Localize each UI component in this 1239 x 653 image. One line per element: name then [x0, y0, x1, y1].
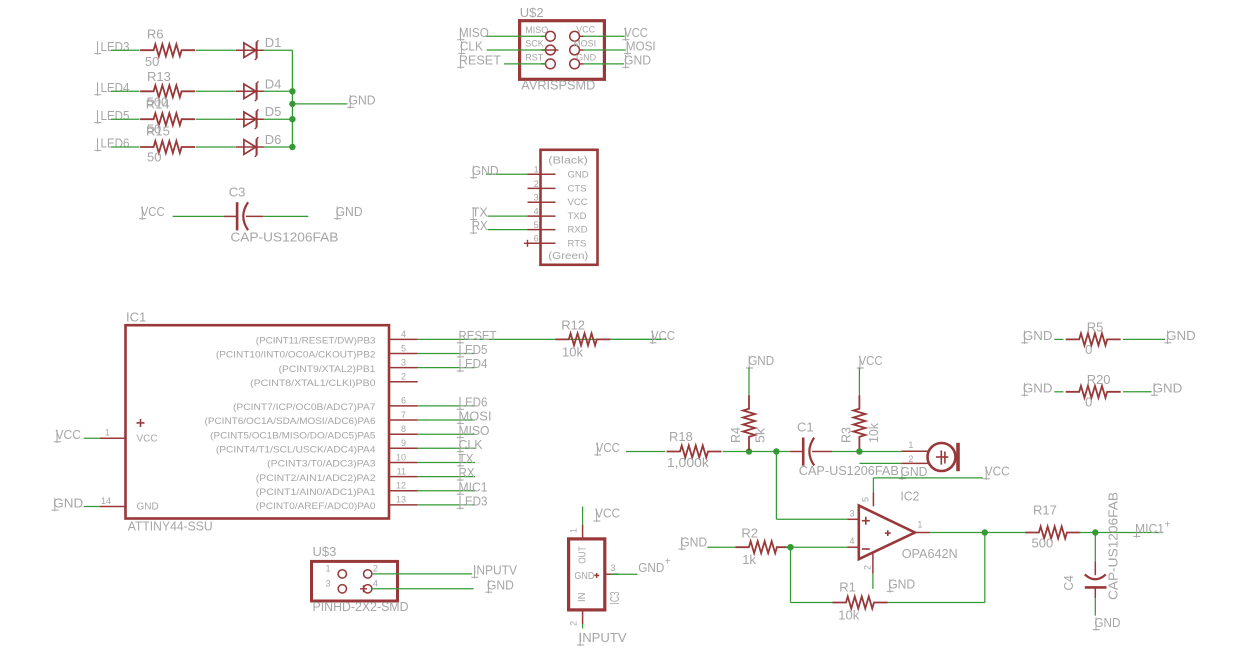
- svg-text:3: 3: [849, 509, 854, 519]
- resistor R14 body: [140, 113, 195, 125]
- svg-text:MOSI: MOSI: [573, 38, 596, 48]
- svg-text:(PCINT8/XTAL1/CLKI)PB0: (PCINT8/XTAL1/CLKI)PB0: [250, 378, 375, 389]
- IC1 pin number 9: [401, 438, 406, 448]
- svg-text:GND: GND: [1094, 615, 1120, 630]
- svg-text:VCC: VCC: [596, 440, 620, 455]
- svg-text:OUT: OUT: [578, 546, 589, 564]
- svg-text:6: 6: [401, 396, 406, 406]
- IC1 pin label (PCINT8/XTAL1/CLKI)PB0: [250, 378, 375, 389]
- svg-text:LED6: LED6: [459, 395, 488, 410]
- svg-text:R4: R4: [728, 427, 743, 443]
- op-amp center + mark: [885, 530, 891, 536]
- capacitor C1 value CAP-US1206FAB: [799, 463, 899, 478]
- op-amp pin number 4: [849, 536, 854, 546]
- wire VCC to R18: [626, 451, 665, 453]
- wire IC3 pin3 to GND: [611, 573, 638, 575]
- ground GND (LED bus): [347, 93, 375, 109]
- ground GND (MIC pin2): [899, 464, 928, 480]
- node CLK: [458, 39, 483, 55]
- svg-text:GND: GND: [487, 577, 514, 592]
- ground GND (R20 left): [1021, 380, 1052, 396]
- op-amp pin number 3: [849, 509, 854, 519]
- svg-text:(PCINT9/XTAL2)PB1: (PCINT9/XTAL2)PB1: [279, 364, 376, 375]
- connector U$3 value PINHD-2X2-SMD: [313, 599, 409, 614]
- junction output node: [982, 529, 988, 535]
- svg-text:GND: GND: [1153, 380, 1183, 395]
- svg-text:AVRISPSMD: AVRISPSMD: [521, 77, 595, 92]
- regulator IC3 outline: [569, 539, 605, 610]
- junction at D4: [289, 88, 295, 94]
- wire LED5 net: [111, 118, 140, 120]
- IC1 pin label (PCINT7/ICP/OC0B/ADC7)PA7: [233, 402, 376, 413]
- svg-text:GND: GND: [336, 204, 363, 219]
- svg-text:5: 5: [860, 497, 870, 502]
- ground GND (IC1 pin14): [52, 495, 84, 511]
- FTDI pin name TXD: [568, 211, 587, 222]
- IC1 internal + mark: [137, 419, 145, 427]
- IC1 pin number 14: [101, 496, 111, 506]
- IC1 pin label (PCINT2/AIN1/ADC2)PA2: [256, 473, 376, 484]
- IC3 pin number 2: [569, 621, 579, 626]
- svg-text:GND: GND: [568, 169, 589, 180]
- svg-text:5k: 5k: [753, 427, 768, 443]
- svg-text:1: 1: [908, 440, 913, 450]
- connector U$3 outline: [312, 561, 398, 601]
- svg-text:+: +: [665, 556, 671, 567]
- connector FTDI label (Black): [548, 156, 588, 167]
- resistor R6 name: [147, 27, 164, 42]
- svg-text:VCC: VCC: [651, 328, 675, 343]
- regulator IC3 name: [607, 592, 622, 605]
- svg-text:11: 11: [397, 466, 406, 476]
- FTDI pin 3 stub: [528, 201, 556, 203]
- svg-text:10k: 10k: [838, 607, 859, 622]
- FTDI pin name CTS: [568, 183, 587, 194]
- svg-text:2: 2: [373, 563, 378, 573]
- svg-text:10: 10: [396, 452, 406, 462]
- wire output to R17: [930, 532, 1027, 534]
- svg-text:GND: GND: [574, 571, 594, 582]
- svg-text:14: 14: [101, 496, 111, 506]
- op-amp pin number 2: [863, 565, 873, 570]
- IC1 pin number 1: [105, 428, 110, 438]
- svg-text:3: 3: [401, 357, 406, 367]
- IC1 value ATTINY44-SSU: [128, 519, 213, 534]
- IC3 internal IN label: [577, 593, 588, 603]
- svg-text:10k: 10k: [866, 423, 881, 443]
- svg-text:ATTINY44-SSU: ATTINY44-SSU: [128, 519, 213, 534]
- U$2 pin label MISO: [525, 25, 548, 35]
- svg-text:IN: IN: [577, 593, 588, 603]
- IC1 pin number 4: [401, 329, 406, 339]
- IC3 pin number 1: [569, 528, 579, 533]
- svg-text:IC1: IC1: [126, 309, 146, 324]
- IC1 pin number 6: [401, 396, 406, 406]
- node RX (FTDI): [470, 218, 488, 234]
- wire R12 to VCC: [610, 338, 666, 340]
- wire cathode bus vertical: [291, 50, 293, 147]
- svg-text:MISO: MISO: [459, 423, 490, 438]
- resistor R15 body: [140, 141, 195, 153]
- junction R3 bottom: [856, 448, 862, 454]
- microphone M1 pin2 wire: [860, 462, 929, 464]
- wire R3 bottom to MIC pin1: [859, 451, 901, 453]
- U$3 pin 4 circle: [364, 585, 372, 593]
- IC1 pin number 5: [401, 343, 406, 353]
- wire LED4 net: [111, 90, 140, 92]
- svg-text:C1: C1: [797, 419, 814, 434]
- svg-text:R13: R13: [147, 69, 171, 84]
- svg-text:2: 2: [908, 454, 913, 464]
- resistor R17: [1025, 503, 1080, 551]
- wire inverting node down: [790, 547, 792, 602]
- junction at GND tap: [289, 101, 295, 107]
- FTDI pin number 4: [534, 207, 539, 217]
- svg-text:3: 3: [611, 563, 616, 573]
- svg-text:VCC: VCC: [595, 506, 620, 521]
- svg-text:(Black): (Black): [548, 156, 588, 167]
- svg-text:R2: R2: [741, 526, 758, 541]
- resistor R18: [667, 429, 722, 470]
- node INPUTV (U$3): [471, 563, 517, 579]
- wire pin2 to GND: [872, 574, 874, 589]
- ground GND (R5 right): [1164, 328, 1195, 344]
- svg-text:1: 1: [105, 428, 110, 438]
- op-amp pin 3 stub: [848, 518, 859, 520]
- svg-text:CLK: CLK: [459, 437, 483, 452]
- capacitor C4 name: [1061, 575, 1076, 590]
- wire R17 to MIC1: [1079, 532, 1163, 534]
- wire node A to C1: [776, 451, 790, 453]
- svg-text:MISO: MISO: [525, 25, 548, 35]
- svg-text:RX: RX: [472, 218, 488, 233]
- wire GND to R2: [707, 546, 735, 548]
- wire D4 to bus: [264, 90, 293, 92]
- wire IC1 pin 6 to LED6: [418, 405, 475, 407]
- capacitor C4 value CAP-US1206FAB: [1106, 492, 1121, 600]
- resistor R13 name: [147, 69, 171, 84]
- U$2 pin label VCC: [576, 25, 596, 35]
- FTDI pin name VCC: [568, 197, 588, 208]
- ground GND (R2): [679, 534, 708, 550]
- power VCC (R12): [649, 328, 675, 344]
- FTDI pin number 1: [534, 165, 539, 175]
- resistor R6 value 50: [145, 54, 159, 69]
- svg-text:RX: RX: [459, 465, 475, 480]
- svg-text:VCC: VCC: [137, 433, 158, 444]
- capacitor C3: [224, 202, 263, 230]
- wire IC1 pin 9 to CLK: [418, 447, 475, 449]
- node RESET (U$2): [457, 53, 501, 69]
- wire TX to FTDI pin4: [488, 215, 528, 217]
- svg-text:R17: R17: [1033, 503, 1057, 518]
- svg-text:VCC: VCC: [859, 353, 883, 368]
- IC3 pin 1 stub: [582, 525, 584, 539]
- IC1 pin 13 stub: [389, 504, 418, 506]
- svg-text:GND: GND: [900, 464, 927, 479]
- svg-text:IC2: IC2: [900, 488, 919, 503]
- IC1 pin 7 stub: [389, 419, 418, 421]
- node MIC1 (IC1): [457, 479, 488, 495]
- power VCC (U$2): [622, 25, 648, 41]
- FTDI pin 4 stub: [528, 215, 556, 217]
- U$2 pin MOSI circle: [570, 45, 584, 55]
- U$2 pin MISO circle: [541, 31, 555, 41]
- wire RESET to U$2: [504, 63, 546, 65]
- U$2 pin VCC circle: [570, 31, 584, 41]
- wire GND to R5: [1054, 338, 1063, 340]
- microphone M1 pin1 stub: [901, 450, 928, 452]
- op-amp - input mark: [862, 548, 870, 550]
- wire IC1 pin 4 to RESET: [418, 338, 667, 340]
- svg-text:4: 4: [401, 329, 406, 339]
- U$3 pin 2 circle: [364, 570, 372, 578]
- wire R to D row 1: [196, 49, 236, 51]
- svg-text:LED4: LED4: [459, 356, 488, 371]
- IC1 pin 2 stub: [389, 381, 418, 383]
- svg-text:GND: GND: [576, 52, 597, 62]
- IC1 pin label (PCINT3/T0/ADC3)PA3: [267, 459, 375, 470]
- wire R2 to pin4: [786, 546, 848, 548]
- svg-text:50: 50: [147, 150, 161, 165]
- svg-text:VCC: VCC: [985, 463, 1010, 478]
- resistor R13 value 500: [147, 94, 169, 109]
- IC1 pin number 11: [397, 466, 406, 476]
- IC3 pin 2 stub: [582, 610, 584, 624]
- IC1 pin label (PCINT0/AREF/ADC0)PA0: [256, 501, 376, 512]
- svg-text:RESET: RESET: [459, 328, 497, 343]
- svg-text:VCC: VCC: [568, 197, 588, 208]
- FTDI pin number 3: [534, 193, 539, 203]
- IC1 pin number 8: [401, 424, 406, 434]
- FTDI pin name RTS: [568, 238, 587, 249]
- diode D4: [236, 76, 282, 101]
- svg-text:(PCINT0/AREF/ADC0)PA0: (PCINT0/AREF/ADC0)PA0: [256, 501, 376, 512]
- U$2 pin label MOSI: [573, 38, 596, 48]
- svg-text:MOSI: MOSI: [626, 39, 656, 54]
- svg-text:MOSI: MOSI: [459, 409, 492, 424]
- wire R to D row 4: [196, 146, 236, 148]
- IC1 pin number 13: [396, 495, 406, 505]
- svg-text:GND: GND: [638, 560, 664, 575]
- IC1 pin 1 VCC stub: [84, 437, 126, 439]
- svg-text:2: 2: [534, 179, 539, 189]
- svg-text:(PCINT1/AIN0/ADC1)PA1: (PCINT1/AIN0/ADC1)PA1: [256, 487, 376, 498]
- IC1 pin 14 GND stub: [84, 506, 126, 508]
- node TX (IC1): [457, 451, 474, 467]
- op-amp pin number 1: [917, 519, 922, 529]
- power VCC (IC3): [593, 506, 620, 523]
- svg-text:0: 0: [1085, 395, 1092, 410]
- ground GND (IC2 pin2): [887, 577, 916, 593]
- U$3 pin number 4: [373, 578, 378, 588]
- svg-text:R14: R14: [146, 96, 170, 111]
- svg-text:(Green): (Green): [548, 251, 588, 262]
- ground GND (C4): [1093, 615, 1121, 631]
- resistor R15 name (overlapping): [146, 124, 170, 139]
- svg-text:+: +: [1165, 519, 1171, 530]
- svg-text:R5: R5: [1087, 320, 1104, 335]
- capacitor C3 value CAP-US1206FAB: [230, 229, 338, 244]
- node LED4 (IC1): [457, 356, 488, 372]
- svg-text:VCC: VCC: [56, 427, 82, 442]
- power VCC (R18): [594, 440, 620, 456]
- microphone M1 body: [928, 443, 959, 471]
- wire MISO to U$2: [486, 35, 546, 37]
- svg-text:0: 0: [1085, 342, 1092, 357]
- svg-text:9: 9: [401, 438, 406, 448]
- resistor R20: [1066, 372, 1121, 410]
- svg-text:LED3: LED3: [101, 39, 130, 54]
- svg-text:R3: R3: [839, 427, 854, 443]
- FTDI pin number 5: [534, 220, 539, 230]
- wire LED3 net: [111, 49, 140, 51]
- wire R to D row 2: [196, 90, 236, 92]
- node CLK (IC1): [457, 437, 483, 453]
- svg-text:13: 13: [396, 495, 406, 505]
- capacitor C1: [790, 438, 832, 466]
- node MISO: [457, 25, 489, 41]
- IC1 pin label (PCINT10/INT0/OC0A/CKOUT)PB2: [216, 350, 376, 361]
- svg-text:GND: GND: [680, 534, 707, 549]
- resistor R13 body: [140, 85, 195, 97]
- IC1 pin 9 stub: [389, 447, 418, 449]
- FTDI pin name RXD: [568, 225, 588, 236]
- svg-text:GND: GND: [748, 353, 774, 368]
- svg-text:R15: R15: [146, 124, 170, 139]
- wire C1 to R3 bottom: [832, 451, 859, 453]
- wire GND to R4: [748, 368, 750, 396]
- wire IC3 pin2 to INPUTV: [582, 624, 584, 629]
- FTDI pin 1 stub: [528, 173, 556, 175]
- svg-text:VCC: VCC: [576, 25, 596, 35]
- IC1 pin label (PCINT4/T1/SCL/USCK/ADC4)PA4: [216, 445, 376, 456]
- U$2 pin RST circle: [541, 59, 555, 69]
- node LED6: [94, 136, 129, 152]
- svg-text:4: 4: [373, 578, 378, 588]
- svg-text:R12: R12: [561, 317, 585, 332]
- svg-text:3: 3: [534, 193, 539, 203]
- wire VCC to R3: [858, 368, 860, 396]
- IC1 pin 8 stub: [389, 433, 418, 435]
- wire IC3 pin1 to VCC: [582, 507, 584, 525]
- connector U$2 value AVRISPSMD: [521, 77, 595, 92]
- svg-text:R20: R20: [1087, 372, 1111, 387]
- svg-text:D1: D1: [265, 35, 282, 50]
- node TX (FTDI): [470, 205, 488, 221]
- svg-text:2: 2: [401, 372, 406, 382]
- wire to GND label: [292, 103, 347, 105]
- svg-text:D5: D5: [265, 104, 282, 119]
- power VCC (IC1 pin1): [54, 427, 81, 443]
- svg-text:GND: GND: [53, 495, 83, 510]
- node GND+ (IC3 pin3): [638, 556, 671, 575]
- wire R to D row 3: [196, 118, 236, 120]
- svg-text:1: 1: [917, 519, 922, 529]
- power VCC (IC2 pin5): [983, 463, 1010, 480]
- IC3 internal OUT label: [578, 546, 589, 564]
- IC U1 IC1 outline: [126, 325, 390, 518]
- IC3 pin 3 stub: [605, 573, 619, 575]
- IC1 internal VCC label: [137, 433, 158, 444]
- svg-text:12: 12: [396, 481, 406, 491]
- svg-text:CTS: CTS: [568, 183, 587, 194]
- FTDI pin number 6: [534, 234, 539, 244]
- svg-text:1,000k: 1,000k: [667, 455, 710, 470]
- wire IC1 pin 13 to LED3: [418, 504, 475, 506]
- svg-text:CAP-US1206FAB: CAP-US1206FAB: [799, 463, 899, 478]
- IC1 pin label (PCINT5/OC1B/MISO/DO/ADC5)PA5: [210, 430, 375, 441]
- node RESET (IC1): [457, 328, 497, 344]
- wire D6 to bus: [264, 146, 293, 148]
- wire C4 top: [1094, 533, 1096, 562]
- FTDI pin name GND: [568, 169, 589, 180]
- IC1 internal GND label: [137, 502, 159, 513]
- U$2 pin label GND: [576, 52, 597, 62]
- resistor R5: [1066, 320, 1121, 358]
- resistor R12: [555, 317, 610, 359]
- U$3 pin number 2: [373, 563, 378, 573]
- wire C4 to GND: [1094, 598, 1096, 615]
- svg-text:5: 5: [534, 220, 539, 230]
- svg-text:5: 5: [401, 343, 406, 353]
- svg-text:MIC1: MIC1: [1135, 521, 1164, 536]
- connector U$2 outline: [520, 21, 605, 80]
- svg-text:GND: GND: [1023, 328, 1053, 343]
- IC1 pin number 3: [401, 357, 406, 367]
- wire R20 to GND: [1123, 391, 1152, 393]
- svg-text:R6: R6: [147, 27, 164, 42]
- wire R5 to GND: [1123, 338, 1165, 340]
- IC1 pin number 12: [396, 481, 406, 491]
- junction feedback node: [787, 544, 793, 550]
- IC1 pin number 2: [401, 372, 406, 382]
- svg-text:(PCINT5/OC1B/MISO/DO/ADC5)PA5: (PCINT5/OC1B/MISO/DO/ADC5)PA5: [210, 430, 375, 441]
- resistor R15 value 50: [147, 150, 161, 165]
- svg-text:10k: 10k: [562, 344, 583, 359]
- node LED6 (IC1): [457, 395, 488, 411]
- U$2 pin GND circle: [570, 59, 584, 69]
- svg-text:50: 50: [145, 54, 159, 69]
- op-amp pin 4 stub: [848, 546, 859, 548]
- capacitor C4: [1085, 561, 1107, 598]
- wire U$2 to GND: [584, 63, 625, 65]
- svg-text:(PCINT2/AIN1/ADC2)PA2: (PCINT2/AIN1/ADC2)PA2: [256, 473, 376, 484]
- svg-text:LED6: LED6: [101, 136, 130, 151]
- wire RX to FTDI pin5: [488, 229, 528, 231]
- wire IC1 pin 10 to TX: [418, 462, 475, 464]
- resistor R1: [833, 580, 888, 623]
- wire C3 to GND: [263, 215, 308, 217]
- FTDI pin 6 unconnected cross: [524, 240, 531, 247]
- svg-text:RTS: RTS: [568, 238, 587, 249]
- svg-text:LED5: LED5: [459, 342, 488, 357]
- IC1 pin 11 stub: [389, 476, 418, 478]
- wire GND to FTDI pin1: [486, 173, 528, 175]
- svg-text:1k: 1k: [742, 552, 756, 567]
- wire IC1 pin 11 to RX: [418, 476, 475, 478]
- svg-text:4: 4: [534, 207, 539, 217]
- U$2 pin label RST: [525, 52, 544, 62]
- svg-text:(PCINT11/RESET/DW)PB3: (PCINT11/RESET/DW)PB3: [256, 336, 376, 347]
- svg-text:(PCINT10/INT0/OC0A/CKOUT)PB2: (PCINT10/INT0/OC0A/CKOUT)PB2: [216, 350, 376, 361]
- IC3 internal GND label: [574, 571, 599, 582]
- wire IC1 pin 7 to MOSI: [418, 419, 475, 421]
- U$2 pin label SCK: [525, 39, 544, 49]
- wire node A down to pin3: [776, 452, 847, 520]
- wire IC1 pin 5 to LED5: [418, 353, 475, 355]
- ground GND (U$2): [622, 53, 651, 69]
